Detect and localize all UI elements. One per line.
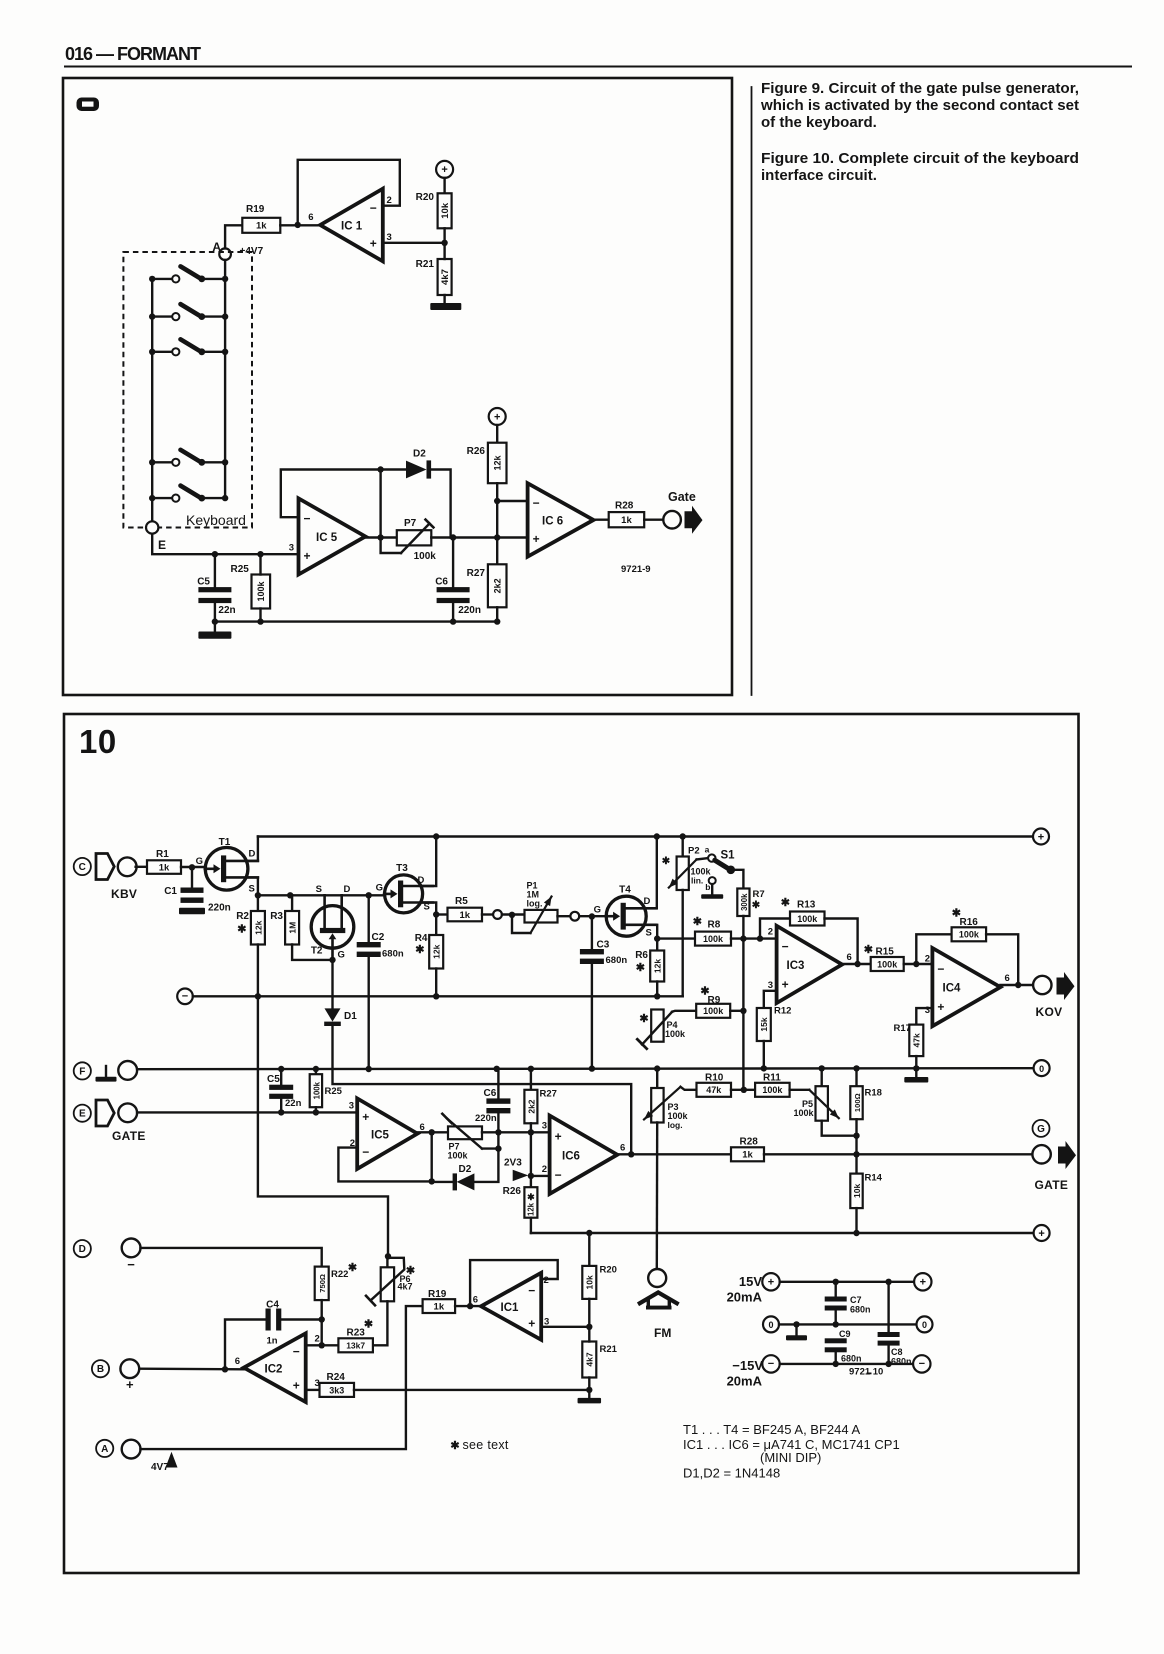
svg-text:+: + [1038,1228,1044,1240]
svg-text:0: 0 [922,1320,927,1330]
svg-text:3: 3 [768,980,773,991]
svg-text:−15V: −15V [732,1358,763,1373]
svg-text:R14: R14 [865,1173,883,1184]
node E [146,521,166,552]
wire R26/R27 node to IC6 − input [494,498,528,565]
svg-text:E: E [158,538,166,552]
svg-text:22n: 22n [285,1098,302,1109]
resistor R7 (300k) [737,889,764,1090]
svg-text:KOV: KOV [1036,1005,1063,1019]
svg-text:R17: R17 [894,1023,911,1034]
svg-text:G: G [376,883,383,894]
svg-text:15V: 15V [739,1274,762,1289]
svg-text:R27: R27 [540,1089,557,1100]
pin 6 label IC3 [847,952,852,963]
capacitor C8 (680n) [878,1282,912,1367]
capacitor C2 (680n) [357,895,404,1068]
op-amp IC5 fig10 [357,1098,417,1169]
svg-text:IC4: IC4 [943,983,962,995]
svg-text:R25: R25 [231,564,250,575]
svg-text:C7: C7 [850,1295,862,1305]
wire R10 to R11, junction with R7 line [731,1087,755,1093]
wire C4 right to R22/pin2 node [281,1320,325,1349]
op-amp IC4 [932,948,1000,1026]
resistor R24 (3k3) [320,1372,355,1397]
pin 3 label IC1 fig10 [544,1317,549,1328]
svg-text:4k7: 4k7 [398,1282,413,1292]
svg-text:D: D [644,896,651,907]
resistor R21 (4k7) [416,243,452,303]
svg-text:T1 . . . T4 = BF245 A, BF244 A: T1 . . . T4 = BF245 A, BF244 A [683,1422,860,1437]
resistor R20 (10k) [416,192,452,243]
0V PSU terminal left with ground [763,1316,917,1340]
svg-text:IC 1: IC 1 [341,221,363,233]
figure 10 frame [64,714,1079,1573]
transistor T2 (JFET, rotated) [311,884,354,961]
svg-text:+: + [1038,831,1044,843]
svg-text:S: S [316,884,322,895]
svg-text:680n: 680n [382,949,404,960]
resistor R8 (100k) [693,916,731,946]
svg-text:+: + [126,1377,134,1392]
resistor R9 (100k) [696,986,743,1018]
switch S1 [705,845,736,875]
svg-text:✱: ✱ [864,944,873,956]
svg-text:100k: 100k [448,1150,469,1160]
Gate output terminal fig9 [663,490,702,534]
svg-text:−: − [127,1257,135,1272]
resistor R25 (100k) fig10 [310,1069,343,1116]
potentiometer P3 (100k log) with wiper to R10 [644,1069,689,1268]
capacitor C3 (680n) [580,917,627,1069]
svg-text:R13: R13 [797,900,816,911]
node T2 gate junction [329,957,335,963]
svg-text:1k: 1k [459,910,470,921]
ground below R21 [430,303,461,310]
svg-text:R22: R22 [331,1269,348,1280]
resistor R27 (2k2) fig10 [524,1069,557,1176]
fig9 ground rail wire [212,618,498,624]
svg-text:2V3: 2V3 [504,1158,522,1169]
+15V supply input terminal [727,1273,780,1304]
resistor R18 (100Ω) [850,1068,882,1173]
svg-text:10k: 10k [585,1275,595,1289]
svg-text:−: − [937,962,944,976]
diode D1 (1N4148) [324,960,631,1154]
capacitor C5 (22n) [197,554,235,621]
svg-text:300k: 300k [740,893,749,911]
svg-text:47k: 47k [706,1085,722,1095]
svg-text:3: 3 [925,1005,930,1016]
wire IC6 output to R28 fig10 [617,1151,731,1157]
svg-text:2: 2 [542,1164,547,1175]
figure 10 number label [79,723,117,760]
svg-text:of the keyboard.: of the keyboard. [761,114,877,131]
wire P7 output line to IC6 pin 3 [482,1121,550,1136]
svg-text:C6: C6 [435,577,448,588]
resistor R22 (750Ω) [315,1262,357,1323]
svg-text:100k: 100k [256,580,266,601]
svg-text:220n: 220n [475,1113,497,1124]
svg-text:10: 10 [79,723,117,760]
svg-text:✱: ✱ [952,908,961,920]
ground below R17 on 0V rail [904,1069,928,1083]
svg-text:100k: 100k [414,551,437,562]
svg-text:100k: 100k [312,1081,321,1099]
svg-text:6: 6 [473,1295,478,1306]
svg-text:✱: ✱ [406,1265,415,1277]
svg-text:C1: C1 [164,886,177,897]
svg-text:R20: R20 [416,192,435,203]
capacitor C7 (680n) [825,1282,871,1325]
potentiometer P1 (1M log.) [512,881,558,934]
ground symbol fig9 [198,622,231,639]
−15V distribution wire [780,1361,913,1367]
wire and connector circle after R5 [482,910,525,919]
figure 9 caption text [760,80,1079,131]
svg-text:R11: R11 [763,1073,781,1084]
IC5 fig9 feedback wire to D2 line [281,466,406,517]
svg-text:1k: 1k [434,1302,445,1313]
figure 10 caption text [761,150,1079,184]
wire R11 to P5 wiper [790,1089,810,1091]
svg-text:✱: ✱ [348,1262,357,1274]
resistor R11 (100k) [755,1073,790,1097]
svg-text:3: 3 [349,1101,354,1112]
wire S1 common to R7 [731,870,744,889]
pin 3 label IC1 [387,232,392,243]
svg-text:GATE: GATE [1035,1178,1069,1192]
input terminal A (4V7) [96,1440,140,1459]
svg-text:D2: D2 [459,1164,472,1175]
op-amp IC6 fig9 [528,483,594,557]
svg-text:100Ω: 100Ω [853,1093,862,1112]
resistor R10 (47k) [697,1073,732,1097]
input terminal D [74,1239,141,1273]
svg-text:1k: 1k [621,515,632,526]
svg-text:IC2: IC2 [265,1363,283,1375]
svg-text:6: 6 [235,1356,240,1367]
svg-text:+: + [937,1000,944,1014]
resistor R19 (1k) [242,204,280,233]
svg-text:D2: D2 [413,449,426,460]
resistor R5 (1k) [448,896,483,921]
resistor R19 (1k) fig10 [423,1289,456,1313]
svg-text:T1: T1 [219,837,231,848]
pin 3 label IC3 [768,980,773,991]
svg-text:R26: R26 [503,1186,522,1197]
+ terminal lower right [1034,1225,1050,1241]
svg-text:✱: ✱ [415,944,424,956]
switch S1 contact b with ground [701,877,723,899]
svg-text:100k: 100k [877,959,898,969]
svg-text:6: 6 [847,952,852,963]
op-amp IC2 (left-pointing) [244,1333,306,1402]
keyboard switch contact 4 [149,450,228,466]
svg-text:−: − [528,1284,535,1298]
svg-text:47k: 47k [912,1033,922,1047]
svg-text:✱: ✱ [693,916,702,928]
svg-text:Gate: Gate [668,490,696,504]
svg-text:1k: 1k [742,1150,753,1161]
wire R19 to IC1 fig10 apex [455,1295,481,1310]
svg-text:R23: R23 [347,1328,366,1339]
input terminal E (GATE) [74,1100,146,1143]
0 output terminal PSU [917,1316,933,1332]
resistor R28 (1k) fig9 [609,501,664,528]
svg-text:−: − [533,496,540,510]
svg-text:R24: R24 [327,1372,346,1383]
svg-text:100k: 100k [665,1029,686,1039]
ground below R21 fig10 [578,1390,602,1404]
svg-text:which is activated by the seco: which is activated by the second contact… [760,97,1079,114]
svg-text:220n: 220n [208,903,231,914]
capacitor C6 (220n) fig10 [475,1069,510,1133]
svg-text:R3: R3 [270,911,283,922]
caption separator line [751,87,753,695]
page header: 016 — FORMANT [65,44,201,64]
svg-text:R20: R20 [600,1265,617,1276]
svg-text:R27: R27 [467,568,486,579]
parts list note MINI DIP [760,1450,821,1465]
potentiometer P6 (4k7) [366,1256,415,1345]
resistor R15 (100k) [864,944,904,971]
op-amp IC5 fig9 [299,498,366,574]
svg-text:R26: R26 [467,446,486,457]
resistor R14 (10k) [850,1173,882,1234]
−15V supply input terminal [727,1355,780,1388]
svg-text:IC 6: IC 6 [542,516,563,528]
pin 2 label IC1 fig10 [544,1275,549,1286]
svg-text:016 — FORMANT: 016 — FORMANT [65,44,201,64]
svg-text:12k: 12k [493,454,503,470]
svg-text:R6: R6 [635,950,648,961]
svg-text:100k: 100k [794,1108,815,1118]
input terminal B [92,1359,139,1392]
svg-text:100k: 100k [703,1006,724,1016]
wire T3 source to R4 and R5 [423,903,440,936]
parts list note D1,D2 [683,1466,780,1481]
svg-text:220n: 220n [458,605,481,616]
op-amp IC6 fig10 [550,1116,618,1194]
− supply terminal and rail [177,989,683,1005]
svg-text:C8: C8 [891,1347,903,1357]
wire node E to IC5 + input [152,534,298,558]
svg-text:IC1: IC1 [501,1302,520,1314]
svg-text:R5: R5 [455,896,468,907]
svg-text:4k7: 4k7 [585,1352,595,1366]
svg-text:+: + [920,1277,926,1289]
svg-text:100k: 100k [797,914,818,924]
op-amp IC1 fig10 (left-pointing) [481,1273,541,1340]
svg-text:b: b [705,882,710,892]
resistor R16 (100k) feedback [916,908,1018,986]
transistor T4 (JFET) [606,885,657,939]
svg-text:+: + [555,1129,562,1143]
wire GATE input to IC5 pin 3 [137,1101,357,1113]
potentiometer P2 (100k lin) with wiper to S1 [662,837,712,997]
svg-text:log.: log. [527,898,543,908]
resistor R12 (15k) [757,1006,792,1069]
svg-text:D: D [249,849,256,860]
svg-text:R21: R21 [600,1344,618,1355]
resistor R2 (12k) [236,895,265,996]
svg-text:✱: ✱ [662,856,671,867]
wire P4 wiper to R9 [672,1011,696,1012]
svg-text:interface circuit.: interface circuit. [761,167,877,184]
wire KBV to R1 [136,866,147,868]
resistor R26 (12k) fig9 [467,443,507,501]
svg-text:C6: C6 [484,1088,497,1099]
IC1 fig10 feedback wire [470,1260,558,1306]
+ terminal top right [1033,829,1049,845]
svg-text:1k: 1k [256,221,267,232]
svg-text:100k: 100k [762,1085,783,1095]
capacitor C5 (22n) fig10 [267,1069,302,1116]
potentiometer P7 (100k) fig10 [442,1114,501,1161]
0 terminal right [1034,1060,1050,1076]
svg-text:12k: 12k [527,1202,536,1216]
+15V distribution wire [780,1279,914,1285]
wire T3 drain to +rail [423,837,437,887]
svg-text:✱: ✱ [237,924,246,936]
G terminal label circle [1033,1120,1050,1137]
potentiometer P5 (100k) with wiper from R11 [794,1068,857,1135]
svg-text:see text: see text [463,1438,509,1452]
svg-text:FM: FM [654,1326,671,1340]
svg-text:R15: R15 [876,947,895,958]
svg-text:1n: 1n [266,1336,277,1347]
svg-text:6: 6 [620,1143,625,1154]
pin 2 label IC4 [925,954,930,965]
svg-text:Figure 9. Circuit of the gate: Figure 9. Circuit of the gate pulse gene… [761,80,1079,97]
pin 6 label IC5 fig10 [420,1122,425,1133]
parts list note T1...T4 [683,1422,860,1437]
svg-text:R25: R25 [325,1086,343,1097]
wire D2 node to IC5 output node [377,470,383,541]
node A (+4V7) [212,240,263,260]
resistor R13 (100k) feedback [760,897,858,964]
wire IC6 output to R28 fig9 [594,519,609,521]
svg-text:lin.: lin. [691,876,703,886]
potentiometer P4 (100k) with wiper to R9 [637,1010,686,1049]
svg-text:3: 3 [387,232,392,243]
svg-text:C5: C5 [267,1074,280,1085]
resistor R26 (12k) fig10 [503,1176,538,1233]
pin 2 label IC3 [768,927,773,938]
wire R24 to R21 ground node [354,1389,589,1391]
svg-text:−: − [362,1145,369,1159]
capacitor C6 (220n) fig9 [435,538,481,622]
resistor R6 (12k) [635,939,664,997]
keyboard switch contact 2 [149,304,228,320]
svg-text:F: F [79,1066,85,1077]
wire P7 to IC6 + input [431,534,527,540]
svg-text:2: 2 [544,1275,549,1286]
keyboard switch contact 1 [149,266,228,282]
op-amp IC3 [777,926,843,1003]
wire IC3 pin3 to R12 [764,991,777,1008]
svg-text:12k: 12k [432,944,442,958]
Keyboard label [186,512,246,528]
diode D2 fig10 [432,1164,475,1190]
svg-text:680n: 680n [850,1305,871,1315]
wire C6 node down to D2 fig10 [474,1132,498,1182]
+V supply terminal above R26 fig9 [489,408,506,443]
pin 3 label IC4 [925,1005,930,1016]
svg-text:P2: P2 [688,846,700,857]
svg-text:S: S [646,928,652,939]
resistor R17 (47k) [894,1023,924,1069]
svg-text:12k: 12k [253,920,263,934]
svg-text:✱: ✱ [700,986,709,998]
svg-text:(MINI DIP): (MINI DIP) [760,1450,821,1465]
potentiometer P7 (100k) fig9 [381,518,437,562]
svg-text:0: 0 [768,1320,773,1330]
svg-text:3: 3 [542,1121,547,1132]
svg-text:E: E [79,1109,86,1120]
svg-text:R2: R2 [236,911,249,922]
KOV output terminal [1033,972,1074,1019]
svg-text:100k: 100k [703,934,724,944]
svg-text:2k2: 2k2 [526,1099,536,1113]
transistor T3 (JFET) [376,863,433,913]
svg-text:✱: ✱ [364,1319,373,1331]
svg-text:KBV: KBV [111,887,137,901]
svg-text:100k: 100k [959,930,980,940]
svg-text:C2: C2 [372,932,385,943]
0V terminal F with ground [74,1061,137,1082]
svg-text:GATE: GATE [112,1129,146,1143]
resistor R1 (1k) [147,849,181,874]
svg-text:IC3: IC3 [787,960,805,972]
svg-text:S1: S1 [721,850,736,862]
drawing number 9721-9 [621,564,651,575]
svg-text:1k: 1k [159,862,170,873]
svg-text:C9: C9 [839,1329,851,1339]
svg-text:T2: T2 [311,946,323,957]
svg-text:Figure 10. Complete circuit of: Figure 10. Complete circuit of the keybo… [761,150,1079,167]
+15V rail lower [531,1230,1034,1236]
svg-text:R28: R28 [615,501,634,512]
+ output terminal PSU [914,1273,931,1290]
0V rail across figure [137,1065,1034,1072]
svg-text:D: D [418,875,425,886]
svg-text:R4: R4 [415,933,428,944]
svg-text:680n: 680n [841,1354,862,1364]
pin 6 label IC4 [1005,973,1010,984]
svg-text:−: − [293,1345,300,1359]
svg-text:D: D [79,1244,86,1255]
svg-text:R8: R8 [708,920,721,931]
resistor R21 (4k7) fig10 [582,1327,617,1393]
transistor T1 (JFET) [205,837,258,895]
wire A terminal up to R19 [141,1306,423,1449]
capacitor C1 (220n) with ground [164,867,231,914]
4V7 marker on A line [151,1452,178,1473]
svg-text:4k7: 4k7 [440,269,451,285]
see text note [450,1438,509,1452]
svg-text:13k7: 13k7 [346,1341,365,1351]
svg-text:2: 2 [768,927,773,938]
svg-text:−: − [370,201,377,215]
pin 2 label IC2 and wire [307,1334,339,1346]
wire IC4 pin3 to R17 [916,1008,932,1025]
svg-text:C4: C4 [266,1300,279,1311]
wire T4 source node to R8 [657,937,695,939]
wire R5 left to T3 source node [436,913,447,915]
+V supply terminal above R20 [436,161,453,193]
